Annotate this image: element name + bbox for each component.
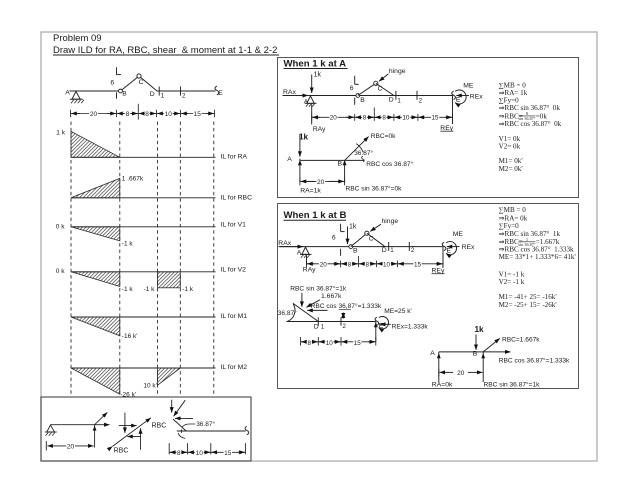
- svg-text:=0k: =0k: [536, 112, 548, 120]
- svg-text:8: 8: [307, 340, 311, 347]
- svg-text:RBC sin 36.87°=1k: RBC sin 36.87°=1k: [290, 285, 347, 293]
- svg-text:6: 6: [332, 234, 336, 241]
- svg-text:1.667k: 1.667k: [321, 293, 342, 300]
- svg-text:Problem 09: Problem 09: [53, 33, 102, 44]
- svg-text:RBC=1.667k: RBC=1.667k: [502, 337, 540, 344]
- svg-text:8: 8: [348, 261, 352, 268]
- svg-text:RAx: RAx: [278, 240, 291, 247]
- svg-text:RBC: RBC: [114, 448, 129, 455]
- svg-text:E: E: [379, 322, 384, 329]
- svg-text:1 k: 1 k: [56, 129, 65, 136]
- svg-text:-1 k: -1 k: [122, 286, 134, 293]
- svg-text:V1= 0k: V1= 0k: [499, 135, 521, 143]
- svg-text:1k: 1k: [314, 71, 322, 78]
- svg-text:8: 8: [177, 450, 181, 457]
- svg-text:36.87°: 36.87°: [196, 420, 215, 428]
- svg-text:⇒RBC sin 36.87° 0k: ⇒RBC sin 36.87° 0k: [499, 104, 561, 112]
- svg-text:D: D: [389, 97, 394, 104]
- svg-text:D: D: [382, 247, 387, 254]
- svg-text:-26 k': -26 k': [120, 392, 136, 399]
- svg-text:IL for M2: IL for M2: [221, 364, 248, 371]
- svg-text:E: E: [218, 90, 223, 97]
- svg-text:15: 15: [224, 450, 232, 457]
- svg-text:hinge: hinge: [389, 68, 406, 75]
- svg-text:8: 8: [126, 111, 130, 118]
- svg-text:ME: ME: [463, 82, 474, 89]
- svg-text:20: 20: [317, 179, 325, 186]
- svg-text:36.87°: 36.87°: [354, 149, 373, 157]
- svg-text:2: 2: [419, 97, 423, 104]
- svg-text:IL for RA: IL for RA: [221, 153, 248, 160]
- svg-text:RBC cos 36.87°: RBC cos 36.87°: [366, 160, 413, 168]
- svg-text:A: A: [287, 156, 292, 163]
- svg-text:-1 k: -1 k: [144, 286, 156, 293]
- svg-text:E: E: [456, 96, 461, 103]
- svg-text:6: 6: [110, 79, 114, 86]
- svg-text:0 k: 0 k: [56, 268, 65, 275]
- svg-text:When 1 k at B: When 1 k at B: [284, 210, 347, 221]
- svg-text:1: 1: [321, 324, 325, 331]
- svg-text:-16 k': -16 k': [122, 333, 138, 340]
- svg-text:When 1 k at A: When 1 k at A: [284, 58, 347, 69]
- svg-text:1: 1: [390, 247, 394, 254]
- svg-text:A: A: [430, 350, 435, 357]
- svg-text:-1 k: -1 k: [122, 240, 134, 247]
- svg-text:C: C: [139, 79, 144, 86]
- svg-text:8: 8: [366, 261, 370, 268]
- svg-text:RBC sin 36.87°=0k: RBC sin 36.87°=0k: [346, 185, 403, 193]
- svg-text:C: C: [369, 235, 374, 242]
- svg-text:IL for V1: IL for V1: [221, 221, 247, 228]
- svg-text:10: 10: [402, 115, 410, 122]
- svg-text:ME=25 k': ME=25 k': [384, 308, 411, 315]
- svg-text:RAx: RAx: [283, 89, 296, 96]
- svg-text:⇒RBC cos 36.87° 0k: ⇒RBC cos 36.87° 0k: [499, 120, 562, 128]
- svg-text:REx=1.333k: REx=1.333k: [392, 323, 429, 330]
- svg-text:V2= -1 k: V2= -1 k: [499, 278, 525, 286]
- svg-text:RBC cos 36,87°=1.333k: RBC cos 36,87°=1.333k: [311, 302, 382, 310]
- svg-text:IL for M1: IL for M1: [221, 313, 248, 320]
- svg-text:C: C: [378, 86, 383, 93]
- svg-text:10: 10: [196, 450, 204, 457]
- svg-text:ME= 33*1+ 1.333*6= 41k': ME= 33*1+ 1.333*6= 41k': [499, 253, 576, 261]
- svg-text:10: 10: [326, 340, 334, 347]
- svg-text:1k: 1k: [299, 132, 309, 141]
- svg-text:REy: REy: [440, 125, 453, 132]
- svg-text:15: 15: [354, 340, 362, 347]
- svg-text:10: 10: [383, 261, 391, 268]
- svg-text:1: 1: [397, 97, 401, 104]
- svg-text:∑MB = 0: ∑MB = 0: [499, 206, 527, 214]
- svg-text:36.87°: 36.87°: [278, 309, 297, 317]
- svg-text:REx: REx: [470, 94, 483, 101]
- svg-text:B: B: [360, 97, 365, 104]
- svg-text:RAy: RAy: [313, 126, 326, 133]
- svg-text:RA=1k: RA=1k: [300, 188, 321, 195]
- svg-text:RBC sin 36.87°=1k: RBC sin 36.87°=1k: [484, 380, 541, 388]
- svg-text:A: A: [65, 90, 70, 97]
- svg-text:RAy: RAy: [303, 266, 316, 273]
- svg-text:2: 2: [342, 323, 346, 330]
- svg-text:A: A: [297, 249, 302, 256]
- svg-text:Draw ILD for RA, RBC, shear &: Draw ILD for RA, RBC, shear & moment at …: [53, 45, 277, 56]
- svg-text:15: 15: [194, 111, 202, 118]
- svg-text:REx: REx: [462, 244, 475, 251]
- svg-text:2: 2: [182, 92, 186, 99]
- svg-text:8: 8: [363, 115, 367, 122]
- svg-text:20: 20: [320, 261, 328, 268]
- svg-text:8: 8: [145, 111, 149, 118]
- svg-text:E: E: [447, 247, 452, 254]
- svg-text:8: 8: [382, 115, 386, 122]
- svg-text:B: B: [353, 248, 358, 255]
- svg-text:⇒RA= 0k: ⇒RA= 0k: [499, 214, 528, 222]
- svg-text:RBC: RBC: [152, 423, 167, 430]
- svg-text:6: 6: [350, 85, 354, 92]
- svg-text:15: 15: [414, 261, 422, 268]
- svg-text:20: 20: [457, 370, 465, 377]
- svg-text:RBC cos 36.87°=1.333k: RBC cos 36.87°=1.333k: [499, 357, 570, 365]
- svg-text:V2= 0k: V2= 0k: [499, 143, 521, 151]
- svg-text:15: 15: [431, 115, 439, 122]
- svg-text:1k: 1k: [349, 224, 357, 231]
- svg-text:10 k': 10 k': [143, 383, 157, 390]
- svg-text:10: 10: [165, 111, 173, 118]
- svg-text:RBC=0k: RBC=0k: [371, 133, 396, 140]
- svg-text:hinge: hinge: [382, 218, 399, 225]
- svg-text:IL for RBC: IL for RBC: [221, 195, 253, 202]
- svg-text:20: 20: [67, 444, 75, 451]
- svg-text:IL for V2: IL for V2: [221, 267, 247, 274]
- svg-text:1: 1: [161, 92, 165, 99]
- svg-text:RA=0k: RA=0k: [432, 381, 453, 388]
- svg-text:B: B: [122, 91, 127, 98]
- svg-text:A: A: [304, 98, 309, 105]
- svg-text:B: B: [473, 351, 478, 358]
- svg-text:D: D: [314, 323, 319, 330]
- svg-text:0 k: 0 k: [56, 224, 65, 231]
- svg-text:B: B: [338, 161, 343, 168]
- svg-text:20: 20: [330, 115, 338, 122]
- svg-text:-1 k: -1 k: [182, 286, 194, 293]
- svg-text:1k: 1k: [475, 325, 485, 334]
- svg-text:D: D: [150, 91, 155, 98]
- svg-text:ME: ME: [453, 231, 464, 238]
- svg-text:M2= -25+ 15= -26k': M2= -25+ 15= -26k': [499, 301, 557, 309]
- svg-text:⇒RBC sin 36.87° 1k: ⇒RBC sin 36.87° 1k: [499, 230, 561, 238]
- svg-text:M2= 0k': M2= 0k': [499, 165, 523, 173]
- svg-text:1 .667k: 1 .667k: [122, 175, 144, 182]
- svg-text:20: 20: [90, 111, 98, 118]
- svg-text:2: 2: [411, 247, 415, 254]
